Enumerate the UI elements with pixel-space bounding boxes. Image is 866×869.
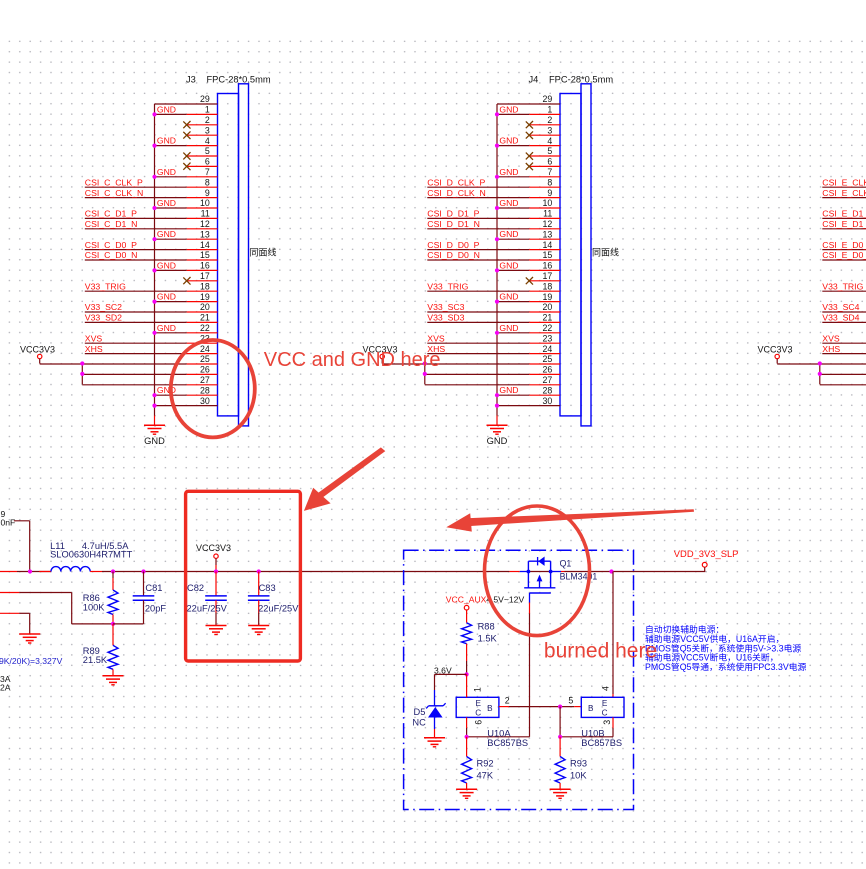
J3 pin 19 GND wire: [155, 301, 187, 303]
svg-text:C: C: [475, 709, 481, 718]
J4 pin 4 GND wire: [497, 145, 529, 147]
svg-text:burned here: burned here: [544, 640, 657, 663]
J5 pin 26 VCC3V3 wire: [820, 373, 866, 375]
J4 pin 17 no-connect stub: [529, 280, 560, 282]
J5 VCC3V3 branch wire: [819, 364, 821, 385]
resistor R92: [462, 737, 494, 790]
svg-text:XHS: XHS: [85, 344, 103, 354]
svg-text:4: 4: [205, 136, 210, 146]
resistor R86: [83, 572, 118, 624]
svg-text:10K: 10K: [570, 771, 587, 781]
svg-text:CSI_C_CLK_N: CSI_C_CLK_N: [85, 188, 143, 198]
svg-text:R88: R88: [478, 622, 495, 632]
svg-text:CSI_C_D0_N: CSI_C_D0_N: [85, 250, 138, 260]
J3 pin 2 no-connect X mark: [183, 121, 190, 128]
J3 pin 7 GND wire: [155, 176, 187, 178]
svg-text:16: 16: [543, 261, 553, 271]
J4 GND bus wire: [496, 104, 498, 416]
svg-text:10: 10: [200, 198, 210, 208]
junction rail/C82: [214, 569, 218, 573]
junction rail/C81: [141, 569, 145, 573]
J3 pin 5 no-connect stub: [187, 155, 218, 157]
svg-text:CSI_E_D0_P: CSI_E_D0_P: [822, 240, 866, 250]
resistor R88: [462, 610, 498, 674]
svg-text:GND: GND: [499, 229, 518, 239]
svg-text:J4: J4: [529, 75, 539, 85]
svg-text:2A: 2A: [0, 683, 11, 693]
J4 pin 23 net wire XVS: [427, 342, 529, 344]
junction rail/R86: [111, 569, 115, 573]
svg-text:V33_TRIG: V33_TRIG: [85, 281, 126, 291]
svg-text:GND: GND: [157, 104, 176, 114]
svg-text:25: 25: [200, 354, 210, 364]
svg-text:自动切换辅助电源：: 自动切换辅助电源：: [645, 624, 724, 635]
svg-text:19: 19: [200, 292, 210, 302]
J3 pin 16 GND wire: [155, 269, 187, 271]
J4 pin 26 VCC3V3 wire: [425, 373, 529, 375]
svg-text:1: 1: [473, 687, 483, 692]
svg-text:21: 21: [200, 313, 210, 323]
svg-text:20: 20: [543, 302, 553, 312]
J4 connector body rectangles: [560, 94, 581, 416]
svg-text:J3: J3: [186, 75, 196, 85]
J5 pin 9 net wire CSI_E_CLK_N: [822, 197, 866, 199]
svg-text:VCC3V3: VCC3V3: [196, 543, 231, 553]
ground symbol left: [19, 634, 40, 643]
ground symbol C83: [248, 626, 269, 635]
svg-text:11: 11: [201, 209, 210, 219]
svg-text:21: 21: [543, 313, 553, 323]
wire VCC rail main horizontal: [0, 571, 17, 573]
svg-text:18: 18: [200, 281, 210, 291]
svg-text:8: 8: [547, 177, 552, 187]
svg-text:V33_SD4: V33_SD4: [822, 313, 859, 323]
connector J5 FPC-28*0.5mm: [758, 84, 866, 446]
svg-text:GND: GND: [157, 323, 176, 333]
J5 pin 18 net wire V33_TRIG: [822, 290, 866, 292]
J3 pin 10 GND wire: [155, 207, 187, 209]
svg-text:100K: 100K: [83, 602, 106, 612]
svg-text:GND: GND: [487, 436, 508, 446]
svg-text:CSI_E_D1_N: CSI_E_D1_N: [822, 219, 866, 229]
svg-text:6: 6: [205, 157, 210, 167]
svg-text:GND: GND: [499, 104, 518, 114]
J4 pin 13 GND wire: [497, 238, 529, 240]
J3 pin 23 net wire XVS: [85, 342, 187, 344]
J4 pin 19 GND wire: [497, 301, 529, 303]
annotation arrow toward Q1 dashed box: [446, 509, 694, 531]
J5 VCC junction pins 25/26: [818, 361, 822, 365]
svg-text:9: 9: [547, 188, 552, 198]
svg-text:0nF: 0nF: [1, 518, 16, 528]
svg-text:GND: GND: [499, 292, 518, 302]
svg-text:辅助电源VCC5V断电，U16关断，: 辅助电源VCC5V断电，U16关断，: [645, 652, 778, 663]
svg-text:16: 16: [200, 261, 210, 271]
J4 VCC junction pins 25/26: [423, 361, 427, 365]
annotation red ellipse around J3 pins: [171, 340, 255, 437]
svg-text:28: 28: [200, 385, 210, 395]
J3 pin 20 net wire V33_SC2: [85, 311, 187, 313]
svg-text:GND: GND: [499, 136, 518, 146]
capacitor C81: [113, 572, 166, 624]
svg-text:VCC3V3: VCC3V3: [758, 345, 793, 355]
svg-text:CSI_C_D0_P: CSI_C_D0_P: [85, 240, 137, 250]
svg-text:BLM3401: BLM3401: [560, 572, 598, 582]
svg-text:6: 6: [547, 157, 552, 167]
J4 pin 6 no-connect stub: [529, 165, 560, 167]
J3 pin 24 net wire XHS: [85, 353, 187, 355]
svg-text:V33_SC4: V33_SC4: [822, 302, 859, 312]
svg-text:2: 2: [547, 115, 552, 125]
svg-text:7: 7: [547, 167, 552, 177]
svg-text:V33_SC2: V33_SC2: [85, 302, 122, 312]
svg-text:CSI_E_D1_P: CSI_E_D1_P: [822, 209, 866, 219]
J4 pin 3 no-connect stub: [529, 134, 560, 136]
svg-text:22: 22: [543, 323, 553, 333]
J3 pin 3 no-connect stub: [187, 134, 218, 136]
svg-text:24: 24: [543, 344, 553, 354]
svg-text:XVS: XVS: [822, 333, 840, 343]
ground symbol R89: [103, 676, 124, 685]
svg-text:GND: GND: [499, 198, 518, 208]
annotation arrow into red rectangle: [304, 447, 385, 511]
svg-text:3: 3: [547, 125, 552, 135]
svg-text:47K: 47K: [477, 771, 494, 781]
svg-text:C81: C81: [145, 583, 162, 593]
svg-text:GND: GND: [499, 323, 518, 333]
J3 pin 4 GND wire: [155, 145, 187, 147]
J4 pin 30 wire: [497, 405, 560, 407]
J3 pin 6 no-connect stub: [187, 165, 218, 167]
Q1 channel arrow: [539, 578, 541, 588]
dashed box auto power switch circuit: [404, 550, 634, 809]
J4 pin 18 net wire V33_TRIG: [427, 290, 529, 292]
J3 pin 2 no-connect stub: [187, 124, 218, 126]
svg-text:13: 13: [543, 229, 553, 239]
svg-text:5: 5: [205, 146, 210, 156]
J3 pin 14 net wire CSI_C_D0_P: [85, 249, 187, 251]
svg-text:11: 11: [543, 209, 552, 219]
note chinese text block: [645, 624, 807, 673]
J5 pin 8 net wire CSI_E_CLK_P: [822, 186, 866, 188]
svg-text:C82: C82: [187, 583, 204, 593]
svg-text:8: 8: [205, 177, 210, 187]
svg-text:GND: GND: [499, 167, 518, 177]
junction R88/D5/U10A emitter: [465, 672, 469, 676]
svg-text:NC: NC: [412, 717, 426, 727]
svg-text:21.5K: 21.5K: [83, 655, 108, 665]
svg-text:SLO0630H4R7MTT: SLO0630H4R7MTT: [50, 550, 132, 560]
capacitor C82: [187, 572, 228, 626]
svg-text:14: 14: [543, 240, 553, 250]
svg-text:3: 3: [205, 125, 210, 135]
junction rail/U10B emitter: [609, 569, 613, 573]
J3 pin 25 VCC3V3 wire: [40, 363, 187, 365]
svg-text:5: 5: [547, 146, 552, 156]
svg-text:CSI_C_D1_P: CSI_C_D1_P: [85, 209, 137, 219]
J3 pin 21 net wire V33_SD2: [85, 321, 187, 323]
svg-text:XHS: XHS: [822, 344, 840, 354]
J4 pin 6 no-connect X mark: [526, 163, 533, 170]
svg-text:12: 12: [200, 219, 210, 229]
svg-text:3: 3: [602, 720, 612, 725]
svg-text:D5: D5: [414, 707, 426, 717]
svg-text:PMOS管Q5导通，系统使用FPC3.3V电源: PMOS管Q5导通，系统使用FPC3.3V电源: [645, 661, 807, 672]
J4 pin 12 net wire CSI_D_D1_N: [427, 228, 529, 230]
svg-text:22: 22: [200, 323, 210, 333]
junction rail/C79: [28, 569, 32, 573]
svg-text:25: 25: [543, 354, 553, 364]
svg-text:V33_TRIG: V33_TRIG: [427, 281, 468, 291]
svg-text:B: B: [588, 704, 594, 713]
svg-text:FPC-28*0.5mm: FPC-28*0.5mm: [549, 75, 613, 85]
svg-text:GND: GND: [157, 292, 176, 302]
J4 pin 25 VCC3V3 wire: [382, 363, 529, 365]
transistor U10A BC857BS: [456, 687, 528, 748]
svg-text:GND: GND: [157, 198, 176, 208]
svg-text:26: 26: [543, 365, 553, 375]
svg-text:22uF/25V: 22uF/25V: [187, 604, 228, 614]
J4 pin 1 GND wire: [497, 113, 529, 115]
J4 pin 17 no-connect X mark: [526, 277, 533, 284]
svg-text:GND: GND: [499, 385, 518, 395]
Q1 gate plate: [530, 592, 551, 594]
svg-text:VCC_AUX: VCC_AUX: [446, 595, 487, 605]
Q1 body diode: [537, 557, 539, 565]
svg-text:BC857BS: BC857BS: [487, 738, 528, 748]
J5 pin 24 net wire XHS: [822, 353, 866, 355]
svg-text:12: 12: [543, 219, 553, 229]
capacitor C83: [248, 572, 299, 626]
wire U10A pin6 collector: [466, 717, 468, 728]
zener diode D5: [412, 703, 445, 727]
svg-text:CSI_E_CLK_N: CSI_E_CLK_N: [822, 188, 866, 198]
J3 pin 9 net wire CSI_C_CLK_N: [85, 197, 187, 199]
svg-text:1: 1: [205, 105, 210, 115]
svg-text:9K/20K)=3.327V: 9K/20K)=3.327V: [0, 656, 63, 666]
svg-text:29: 29: [543, 94, 553, 104]
svg-text:C: C: [602, 709, 608, 718]
svg-text:U10A: U10A: [487, 728, 511, 738]
J5 pin 27 VCC3V3 wire: [820, 384, 866, 386]
J4 pin 10 GND wire: [497, 207, 529, 209]
transistor Q1 PMOS BLM3401: [524, 557, 597, 594]
J3 pin 27 VCC3V3 wire: [82, 384, 186, 386]
J4 pin 20 net wire V33_SC3: [427, 311, 529, 313]
svg-text:1: 1: [547, 105, 552, 115]
svg-text:CSI_E_CLK_P: CSI_E_CLK_P: [822, 177, 866, 187]
wire left feedback net: [0, 592, 19, 594]
J4 pin 2 no-connect stub: [529, 124, 560, 126]
wire rail through Q1 to VDD_3V3_SLP: [520, 571, 529, 573]
J3 pin 18 net wire V33_TRIG: [85, 290, 187, 292]
J3 pin 17 no-connect X mark: [183, 277, 190, 284]
svg-text:R93: R93: [570, 759, 587, 769]
J4 pin 21 net wire V33_SD3: [427, 321, 529, 323]
junction R93 node: [558, 735, 562, 739]
svg-text:E: E: [475, 699, 481, 708]
svg-text:4: 4: [547, 136, 552, 146]
svg-text:GND: GND: [157, 385, 176, 395]
J4 pin 28 GND wire: [497, 394, 529, 396]
J4 pin 5 no-connect stub: [529, 155, 560, 157]
resistor R89: [83, 624, 118, 676]
junction rail/C83: [257, 569, 261, 573]
ground symbol C82: [206, 626, 227, 635]
svg-text:E: E: [602, 699, 608, 708]
svg-text:V33_SD3: V33_SD3: [427, 313, 464, 323]
J3 pin 13 GND wire: [155, 238, 187, 240]
wire base node down: [559, 707, 561, 737]
J3 pin 8 net wire CSI_C_CLK_P: [85, 186, 187, 188]
J4 pin 2 no-connect X mark: [526, 121, 533, 128]
J5 pin 14 net wire CSI_E_D0_P: [822, 249, 866, 251]
J5 pin 23 net wire XVS: [822, 342, 866, 344]
connector J3 FPC-28*0.5mm: [20, 75, 277, 447]
svg-text:30: 30: [543, 396, 553, 406]
svg-text:CSI_E_D0_N: CSI_E_D0_N: [822, 250, 866, 260]
J4 pin 24 net wire XHS: [427, 353, 529, 355]
svg-text:CSI_D_D0_P: CSI_D_D0_P: [427, 240, 479, 250]
svg-text:7: 7: [205, 167, 210, 177]
svg-text:GND: GND: [157, 229, 176, 239]
svg-text:CSI_C_D1_N: CSI_C_D1_N: [85, 219, 138, 229]
ground symbol R92: [456, 789, 477, 798]
wire U10A base to U10B base: [499, 706, 509, 708]
svg-text:CSI_D_D1_N: CSI_D_D1_N: [427, 219, 480, 229]
svg-text:15: 15: [200, 250, 210, 260]
J3 connector body rectangles: [218, 94, 239, 416]
svg-text:CSI_C_CLK_P: CSI_C_CLK_P: [85, 177, 143, 187]
svg-text:GND: GND: [499, 260, 518, 270]
svg-text:6: 6: [474, 720, 484, 725]
annotation red ellipse around Q1 burned: [485, 506, 590, 636]
J5 pin 20 net wire V33_SC4: [822, 311, 866, 313]
svg-text:GND: GND: [157, 260, 176, 270]
svg-text:24: 24: [200, 344, 210, 354]
wire red segment before L11: [39, 571, 51, 573]
J3 pin 28 GND wire: [155, 394, 187, 396]
J4 pin 15 net wire CSI_D_D0_N: [427, 259, 529, 261]
J4 pin 7 GND wire: [497, 176, 529, 178]
annotation red highlight rectangle around C82/C83: [186, 491, 301, 661]
junction R86 bottom: [111, 622, 115, 626]
wire rail after L11: [90, 571, 102, 573]
svg-text:V33_SC3: V33_SC3: [427, 302, 464, 312]
svg-text:14: 14: [200, 240, 210, 250]
J3 pin 5 no-connect X mark: [183, 153, 190, 160]
svg-text:XVS: XVS: [85, 333, 103, 343]
svg-text:V33_SD2: V33_SD2: [85, 313, 122, 323]
J5 pin 21 net wire V33_SD4: [822, 321, 866, 323]
J3 GND bus wire: [154, 104, 156, 416]
J3 pin 1 GND wire: [155, 113, 187, 115]
svg-text:20pF: 20pF: [145, 604, 167, 614]
svg-text:CSI_D_D0_N: CSI_D_D0_N: [427, 250, 480, 260]
J3 pin 12 net wire CSI_C_D1_N: [85, 228, 187, 230]
J4 pin 8 net wire CSI_D_CLK_P: [427, 186, 529, 188]
J3 pin 6 no-connect X mark: [183, 163, 190, 170]
J4 pin 14 net wire CSI_D_D0_P: [427, 249, 529, 251]
svg-text:GND: GND: [157, 167, 176, 177]
J4 pin 11 net wire CSI_D_D1_P: [427, 217, 529, 219]
svg-text:28: 28: [543, 385, 553, 395]
wire U10A pin1 emitter: [466, 674, 468, 697]
svg-text:2: 2: [205, 115, 210, 125]
svg-text:B: B: [487, 704, 493, 713]
svg-text:BC857BS: BC857BS: [581, 738, 622, 748]
svg-text:V33_TRIG: V33_TRIG: [822, 281, 863, 291]
svg-text:GND: GND: [144, 436, 165, 446]
svg-text:19: 19: [543, 292, 553, 302]
svg-text:9: 9: [205, 188, 210, 198]
svg-text:30: 30: [200, 396, 210, 406]
resistor R93: [555, 737, 587, 790]
svg-text:17: 17: [200, 271, 210, 281]
svg-text:15: 15: [543, 250, 553, 260]
J4 pin 22 GND wire: [497, 332, 529, 334]
svg-text:VCC and GND here: VCC and GND here: [264, 349, 441, 371]
wire U10B pin4 emitter to rail: [612, 572, 614, 695]
svg-text:CSI_D_CLK_N: CSI_D_CLK_N: [427, 188, 485, 198]
svg-text:CSI_D_CLK_P: CSI_D_CLK_P: [427, 177, 485, 187]
svg-text:GND: GND: [157, 136, 176, 146]
junction U10A collector node: [465, 735, 469, 739]
svg-text:CSI_D_D1_P: CSI_D_D1_P: [427, 209, 479, 219]
svg-text:VCC3V3: VCC3V3: [20, 345, 55, 355]
svg-text:18: 18: [543, 281, 553, 291]
svg-text:PMOS管Q5关断，系统使用5V->3.3电源: PMOS管Q5关断，系统使用5V->3.3电源: [645, 642, 801, 653]
J5 pin 12 net wire CSI_E_D1_N: [822, 228, 866, 230]
J4 pin 5 no-connect X mark: [526, 153, 533, 160]
svg-text:5: 5: [568, 695, 573, 705]
J4 VCC3V3 branch wire: [424, 364, 426, 385]
svg-text:27: 27: [200, 375, 210, 385]
svg-text:26: 26: [200, 365, 210, 375]
ground symbol D5: [424, 738, 445, 747]
wire Q1 gate down to U10A collector: [529, 593, 531, 603]
svg-text:10: 10: [543, 198, 553, 208]
svg-text:VDD_3V3_SLP: VDD_3V3_SLP: [674, 548, 739, 559]
svg-text:同面线: 同面线: [592, 247, 619, 258]
J3 ground symbol: [154, 416, 156, 426]
J3 pin 15 net wire CSI_C_D0_N: [85, 259, 187, 261]
connector J4 FPC-28*0.5mm: [363, 75, 620, 447]
J3 VCC3V3 branch wire: [81, 364, 83, 385]
J5 pin 11 net wire CSI_E_D1_P: [822, 217, 866, 219]
J4 pin 9 net wire CSI_D_CLK_N: [427, 197, 529, 199]
J5 pin 25 VCC3V3 wire: [777, 363, 866, 365]
svg-text:22uF/25V: 22uF/25V: [258, 604, 299, 614]
wire left net to ground: [0, 612, 19, 614]
svg-text:13: 13: [200, 229, 210, 239]
J3 VCC junction pins 25/26: [80, 361, 84, 365]
J4 pin 27 VCC3V3 wire: [425, 384, 529, 386]
J4 pin 3 no-connect X mark: [526, 132, 533, 139]
J4 pin 29 wire: [497, 103, 560, 105]
svg-text:同面线: 同面线: [250, 247, 277, 258]
svg-text:4: 4: [600, 686, 610, 691]
J3 pin 3 no-connect X mark: [183, 132, 190, 139]
svg-text:FPC-28*0.5mm: FPC-28*0.5mm: [207, 75, 271, 85]
J3 pin 22 GND wire: [155, 332, 187, 334]
svg-text:R92: R92: [477, 759, 494, 769]
svg-text:20: 20: [200, 302, 210, 312]
junction base wire / R93: [558, 705, 562, 709]
wire to zener D5: [435, 673, 467, 675]
J3 pin 17 no-connect stub: [187, 280, 218, 282]
J3 pin 26 VCC3V3 wire: [82, 373, 186, 375]
